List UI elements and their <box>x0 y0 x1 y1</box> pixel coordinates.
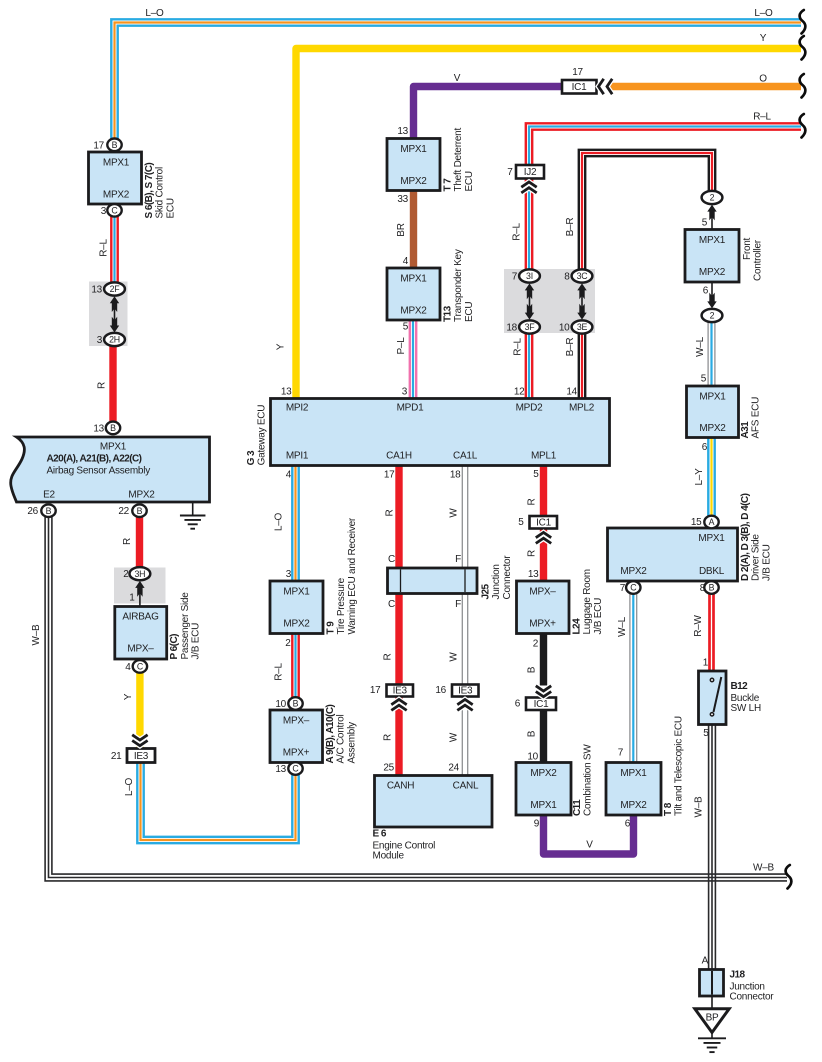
svg-text:B: B <box>709 583 715 593</box>
svg-text:Airbag Sensor Assembly: Airbag Sensor Assembly <box>47 466 151 477</box>
wire R (airbag sensor MPX2 to connector 3H) <box>136 516 143 569</box>
svg-text:IC1: IC1 <box>534 699 550 710</box>
svg-text:13: 13 <box>275 764 286 775</box>
break symbol Y right edge <box>800 36 806 60</box>
svg-text:C: C <box>388 554 395 565</box>
svg-text:Y: Y <box>123 693 134 700</box>
junction connector J25 <box>388 554 513 610</box>
svg-text:C: C <box>292 764 299 774</box>
label R CA1H mid <box>383 653 394 660</box>
label BR <box>396 223 407 236</box>
connector IJ2 pin 7 <box>507 165 544 179</box>
arrow below 3H <box>129 581 144 606</box>
svg-text:IC1: IC1 <box>572 82 588 93</box>
svg-text:13: 13 <box>281 387 292 398</box>
svg-text:MPX1: MPX1 <box>400 274 427 285</box>
label B IC1-C11 <box>527 730 538 737</box>
wire W-B (buckle SW to J18 junction connector) <box>709 724 716 971</box>
label R-L 3F <box>513 338 524 356</box>
svg-text:C: C <box>137 662 144 672</box>
svg-text:MPX+: MPX+ <box>283 748 310 759</box>
ECU box P6 passenger side J/B <box>115 592 202 673</box>
svg-text:C: C <box>388 599 395 610</box>
svg-text:18: 18 <box>450 470 461 481</box>
svg-text:MPX2: MPX2 <box>283 619 310 630</box>
svg-text:MPX–: MPX– <box>529 587 556 598</box>
pin B airbag sensor MPX2 <box>132 504 146 517</box>
svg-text:1: 1 <box>703 658 709 669</box>
pin A driver side MPX1 <box>704 516 718 529</box>
arrows between 3C and 3E <box>577 283 586 319</box>
ECU box A9/A10 A/C control assembly <box>270 699 357 775</box>
wire R (gateway CA1H to J25) <box>395 465 402 570</box>
svg-text:9: 9 <box>534 819 540 830</box>
svg-text:5: 5 <box>701 374 707 385</box>
wire R (connector 2H to airbag sensor MPX1) <box>109 345 116 423</box>
connector block 2F/2H shading <box>89 282 128 347</box>
svg-text:Y: Y <box>276 343 287 350</box>
svg-text:17: 17 <box>384 470 395 481</box>
svg-text:DBKL: DBKL <box>699 566 725 577</box>
wire R (IE3 to ECM CANH) <box>395 697 402 778</box>
ECU box A20/A21/A22 airbag sensor assembly <box>11 424 210 518</box>
svg-text:MPL1: MPL1 <box>531 451 557 462</box>
svg-text:V: V <box>586 840 593 851</box>
arrow into top oval 2 <box>707 205 716 229</box>
wire L-O (IE3 to A/C control MPX+) <box>137 763 298 843</box>
svg-text:R: R <box>527 550 538 557</box>
svg-text:W–L: W–L <box>617 616 628 637</box>
svg-text:2: 2 <box>533 639 539 650</box>
svg-text:B: B <box>137 506 143 516</box>
chevron below IC1 pin5 <box>536 533 551 544</box>
svg-text:Module: Module <box>373 851 405 862</box>
svg-text:R–L: R–L <box>274 663 285 681</box>
svg-text:13: 13 <box>93 424 104 435</box>
svg-text:C11: C11 <box>572 799 583 816</box>
ECU box T13 transponder key <box>387 249 475 332</box>
svg-text:16: 16 <box>435 685 446 696</box>
svg-text:A: A <box>709 517 715 527</box>
svg-text:T 9: T 9 <box>326 621 337 635</box>
pin B A/C control MPX- <box>288 697 302 710</box>
svg-text:Warning ECU and Receiver: Warning ECU and Receiver <box>347 517 358 634</box>
wire R-L (IJ2 to connector 3I) <box>526 179 532 272</box>
label R IC1-L24 <box>527 550 538 557</box>
wire R-L (skid control MPX2 to connector 2F) <box>111 214 117 284</box>
svg-text:CA1H: CA1H <box>386 451 412 462</box>
svg-text:T 8: T 8 <box>663 802 674 816</box>
svg-text:6: 6 <box>515 699 521 710</box>
svg-text:MPX2: MPX2 <box>699 423 726 434</box>
junction connector J18 <box>700 956 775 1003</box>
svg-text:Connector: Connector <box>502 555 513 600</box>
connector IE3 pin 17 <box>370 685 413 697</box>
svg-text:J18: J18 <box>730 970 746 981</box>
svg-text:Tire Pressure: Tire Pressure <box>336 577 347 634</box>
break symbol R-L right edge <box>800 114 806 138</box>
wire W (IE3 to ECM CANL) <box>462 697 467 778</box>
svg-text:MPX1: MPX1 <box>698 533 725 544</box>
svg-text:MPX1: MPX1 <box>100 442 127 453</box>
svg-text:MPX2: MPX2 <box>699 267 726 278</box>
connector oval 2H <box>97 333 125 346</box>
chevron below IE3 pin16 <box>457 700 472 711</box>
connector oval 3E <box>559 320 593 333</box>
wire R-L (tire pressure MPX2 to A/C control MPX-) <box>292 633 298 698</box>
svg-text:17: 17 <box>572 67 583 78</box>
label B-R 3C <box>565 218 576 237</box>
svg-text:3: 3 <box>101 206 107 217</box>
svg-text:F: F <box>455 599 461 610</box>
label R CA1H upper <box>385 509 396 516</box>
label R-L IJ2 <box>512 223 523 241</box>
svg-text:F: F <box>455 554 461 565</box>
svg-text:Front: Front <box>742 237 753 260</box>
label R-L skid <box>99 239 110 257</box>
svg-text:Y: Y <box>760 33 767 44</box>
svg-text:1: 1 <box>129 593 135 604</box>
ECU box T8 tilt and telescopic <box>606 716 685 829</box>
svg-text:MPD2: MPD2 <box>516 403 543 414</box>
pin C passenger side J/B MPX- <box>133 660 147 673</box>
label R-L right <box>753 112 771 123</box>
svg-text:2: 2 <box>285 638 291 649</box>
svg-text:3H: 3H <box>134 569 145 579</box>
label R MPL1 <box>527 498 538 505</box>
pin B driver side DBKL <box>704 581 718 594</box>
svg-text:CA1L: CA1L <box>453 451 478 462</box>
svg-text:R–L: R–L <box>512 223 523 241</box>
wire B (luggage room J/B MPX+ to IC1) <box>540 633 547 686</box>
label L-O top right <box>754 8 773 19</box>
svg-text:A20(A), A21(B), A22(C): A20(A), A21(B), A22(C) <box>47 454 142 465</box>
ECU box S6/S7 skid control <box>89 140 177 218</box>
svg-text:ECU: ECU <box>464 302 475 322</box>
ECU box T9 tire pressure warning <box>270 517 358 649</box>
svg-text:10: 10 <box>527 752 538 763</box>
ground symbol bottom <box>698 1033 726 1053</box>
svg-text:L–O: L–O <box>754 8 773 19</box>
label L-O IE3 loop <box>124 777 135 796</box>
svg-text:IE3: IE3 <box>458 686 473 697</box>
arrows between 2F and 2H <box>110 296 119 332</box>
wire R-L (IJ2 to right edge) <box>526 123 801 166</box>
svg-text:O: O <box>759 74 767 85</box>
label L-Y AFS <box>694 468 705 486</box>
svg-text:MPX2: MPX2 <box>530 768 557 779</box>
svg-text:T 7: T 7 <box>443 178 454 192</box>
svg-text:7: 7 <box>512 272 518 283</box>
svg-text:17: 17 <box>93 140 104 151</box>
svg-text:2: 2 <box>710 193 715 203</box>
svg-text:R–L: R–L <box>99 239 110 257</box>
connector IC1 pin 6 <box>515 698 556 711</box>
svg-text:18: 18 <box>506 323 517 334</box>
connector oval 2 front controller bottom <box>702 309 723 322</box>
break symbol W-B right edge <box>786 865 792 889</box>
pin C A/C control MPX+ <box>288 762 302 775</box>
svg-text:MPX–: MPX– <box>127 644 154 655</box>
svg-text:IJ2: IJ2 <box>524 167 537 178</box>
svg-text:G 3: G 3 <box>246 450 257 465</box>
svg-text:R: R <box>122 538 133 545</box>
label P-L <box>396 337 407 355</box>
wire Y (gateway MPI2 to right edge) <box>296 49 801 399</box>
svg-text:T13: T13 <box>443 305 454 322</box>
svg-text:10: 10 <box>275 699 286 710</box>
svg-text:8: 8 <box>564 272 570 283</box>
wire P-L (transponder key MPX2 to gateway MPD1) <box>410 319 416 398</box>
wire B (IC1 to combination SW MPX2) <box>540 710 547 764</box>
svg-text:MPI1: MPI1 <box>286 451 309 462</box>
svg-text:2: 2 <box>710 311 715 321</box>
wire B-R (connector 3C to front controller) <box>579 150 715 272</box>
label B-R 3E <box>565 338 576 357</box>
svg-text:2F: 2F <box>110 284 121 294</box>
svg-text:Combination SW: Combination SW <box>583 744 594 816</box>
svg-text:ECU: ECU <box>165 198 176 218</box>
svg-text:B: B <box>527 666 538 673</box>
svg-text:6: 6 <box>702 442 708 453</box>
svg-text:W–B: W–B <box>753 863 775 874</box>
svg-text:MPX2: MPX2 <box>400 306 427 317</box>
svg-text:Driver Side: Driver Side <box>751 534 762 581</box>
svg-text:E 6: E 6 <box>373 829 387 840</box>
svg-text:W: W <box>449 508 460 518</box>
svg-text:26: 26 <box>27 506 38 517</box>
svg-text:25: 25 <box>383 763 394 774</box>
chevron below IJ2 <box>521 182 536 193</box>
svg-text:MPX2: MPX2 <box>128 490 155 501</box>
connector block 3I/3C/3F/3E shading <box>504 269 595 333</box>
svg-text:E2: E2 <box>43 490 55 501</box>
svg-text:A/C Control: A/C Control <box>336 715 347 764</box>
svg-text:C: C <box>630 583 637 593</box>
svg-text:33: 33 <box>397 194 408 205</box>
node BP body ground point <box>695 996 729 1033</box>
svg-text:7: 7 <box>618 748 624 759</box>
ECU box A31 AFS <box>687 374 762 454</box>
svg-text:B12: B12 <box>731 681 749 692</box>
wire W (J25 to IE3) <box>462 592 467 685</box>
svg-text:ECU: ECU <box>464 171 475 191</box>
connector oval 3C <box>564 269 592 282</box>
svg-text:MPX1: MPX1 <box>400 144 427 155</box>
svg-text:Luggage Room: Luggage Room <box>582 569 593 634</box>
svg-text:B: B <box>527 730 538 737</box>
svg-text:2: 2 <box>123 569 129 580</box>
svg-text:3: 3 <box>286 569 292 580</box>
svg-text:J/B ECU: J/B ECU <box>761 544 772 581</box>
label W-L T8 <box>617 616 628 637</box>
svg-text:5: 5 <box>702 218 708 229</box>
svg-text:W–B: W–B <box>31 624 42 646</box>
label W CA1L mid <box>449 652 460 662</box>
pin B skid control MPX1 <box>107 139 121 152</box>
svg-text:MPX2: MPX2 <box>400 176 427 187</box>
label R airbag-3H <box>122 538 133 545</box>
connector oval 3H <box>123 567 150 580</box>
label W CA1L lower <box>449 732 460 742</box>
svg-text:3E: 3E <box>577 322 588 332</box>
wire B-R (connector 3E to gateway MPL2) <box>579 332 585 398</box>
svg-text:3C: 3C <box>577 271 589 281</box>
svg-text:Junction: Junction <box>491 564 502 599</box>
label L-O gateway MPI1 <box>274 512 285 531</box>
svg-text:L–O: L–O <box>124 777 135 796</box>
wire L-O (gateway MPI1 to tire pressure MPX1) <box>292 465 298 582</box>
svg-text:MPX1: MPX1 <box>620 768 647 779</box>
svg-text:W–L: W–L <box>695 336 706 357</box>
svg-text:R–L: R–L <box>753 112 771 123</box>
svg-text:P 6(C): P 6(C) <box>169 634 180 660</box>
svg-text:L24: L24 <box>572 618 583 635</box>
label W-B buckle <box>694 796 705 818</box>
wire W-L (front controller to AFS ECU MPX1) <box>708 321 715 387</box>
label W CA1L upper <box>449 508 460 518</box>
ECU box E6 engine control module <box>373 763 493 862</box>
pin C skid control MPX2 <box>107 204 121 217</box>
svg-text:4: 4 <box>286 470 292 481</box>
wire W (gateway CA1L to J25) <box>462 465 467 570</box>
svg-text:W–B: W–B <box>694 796 705 818</box>
svg-text:7: 7 <box>620 583 626 594</box>
pin B airbag sensor E2 <box>41 504 55 517</box>
ECU box G3 gateway <box>246 387 610 481</box>
connector oval 3F <box>506 320 540 333</box>
svg-text:L–Y: L–Y <box>694 468 705 486</box>
svg-text:MPL2: MPL2 <box>569 403 595 414</box>
svg-text:MPX2: MPX2 <box>620 566 647 577</box>
wire R-W (driver side DBKL to buckle SW) <box>710 593 714 672</box>
wire O (IC1 to right edge) <box>610 83 801 90</box>
svg-text:W: W <box>449 652 460 662</box>
wire R (J25 to IE3) <box>395 592 402 685</box>
svg-text:IE3: IE3 <box>393 686 408 697</box>
svg-text:MPX1: MPX1 <box>699 235 726 246</box>
svg-text:B: B <box>110 423 116 433</box>
label Y gateway <box>276 343 287 350</box>
svg-text:B: B <box>293 699 299 709</box>
svg-text:J/B ECU: J/B ECU <box>191 623 202 660</box>
svg-text:AFS ECU: AFS ECU <box>751 397 762 439</box>
svg-text:21: 21 <box>111 751 122 762</box>
break symbol L-O right edge <box>800 10 806 34</box>
connector block 3H shading <box>114 568 166 604</box>
connector IE3 pin 21 <box>111 749 155 763</box>
label R-W <box>693 614 704 636</box>
connector oval 2F <box>91 282 125 295</box>
svg-text:BP: BP <box>706 1013 719 1024</box>
arrow into bottom oval 2 <box>707 283 716 308</box>
svg-text:Assembly: Assembly <box>346 722 357 764</box>
svg-text:15: 15 <box>691 517 702 528</box>
connector oval 3I <box>512 269 540 282</box>
svg-text:12: 12 <box>514 387 525 398</box>
wire L-Y (AFS ECU MPX2 to driver side J/B MPX1) <box>708 437 714 517</box>
svg-text:6: 6 <box>703 286 709 297</box>
chevron above IC1 pin6 <box>536 686 551 697</box>
svg-text:Theft Deterrent: Theft Deterrent <box>453 128 464 192</box>
chevron above IE3 pin21 <box>132 735 147 746</box>
label W-L front controller <box>695 336 706 357</box>
svg-text:MPX2: MPX2 <box>103 190 130 201</box>
svg-text:J/B ECU: J/B ECU <box>593 598 604 635</box>
svg-text:4: 4 <box>125 662 131 673</box>
arrows between 3I and 3F <box>525 283 534 319</box>
svg-text:5: 5 <box>403 322 409 333</box>
svg-text:MPX–: MPX– <box>283 716 310 727</box>
ECU box D2/D3/D4 driver side J/B <box>608 493 773 594</box>
svg-text:R: R <box>97 382 108 389</box>
svg-text:13: 13 <box>91 285 102 296</box>
svg-text:A: A <box>702 956 709 967</box>
svg-text:V: V <box>454 73 461 84</box>
ECU box T7 theft deterrent <box>387 126 475 205</box>
connector IC1 pin 17 <box>562 67 597 94</box>
svg-text:W: W <box>449 732 460 742</box>
break symbol O right edge <box>800 74 806 98</box>
svg-text:J25: J25 <box>481 583 492 599</box>
svg-text:B: B <box>46 506 52 516</box>
svg-text:3: 3 <box>402 387 408 398</box>
connector IC1 pin 5 <box>518 516 557 529</box>
label R 2H-airbag <box>97 382 108 389</box>
label Y P6-IE3 <box>123 693 134 700</box>
svg-text:D 2(A), D 3(B), D 4(C): D 2(A), D 3(B), D 4(C) <box>740 493 751 581</box>
svg-text:IC1: IC1 <box>536 518 552 529</box>
wire V (theft deterrent MPX1 to IC1) <box>414 87 564 141</box>
svg-text:R: R <box>527 498 538 505</box>
svg-text:Passenger Side: Passenger Side <box>180 592 191 660</box>
svg-text:MPX+: MPX+ <box>529 619 556 630</box>
ECU box front controller <box>685 218 764 297</box>
svg-text:5: 5 <box>533 469 539 480</box>
svg-text:R–L: R–L <box>513 338 524 356</box>
svg-text:22: 22 <box>118 506 129 517</box>
svg-text:SW LH: SW LH <box>731 703 761 714</box>
label W-B right <box>753 863 775 874</box>
ECU box L24 luggage room J/B <box>517 569 604 650</box>
wire R (gateway MPL1 to IC1) <box>540 465 547 517</box>
svg-text:C: C <box>111 206 118 216</box>
svg-text:L–O: L–O <box>274 512 285 531</box>
svg-text:2H: 2H <box>109 335 120 345</box>
svg-text:MPX1: MPX1 <box>530 800 557 811</box>
svg-text:24: 24 <box>448 763 459 774</box>
svg-text:3I: 3I <box>526 271 533 281</box>
wire L-O (skid control MPX1 to right edge) <box>111 19 801 141</box>
wire BR (theft deterrent MPX2 to transponder key MPX1) <box>410 189 417 269</box>
svg-text:7: 7 <box>507 167 513 178</box>
wire V (combination SW MPX1 to tilt telescopic MPX2) <box>544 814 634 854</box>
svg-text:Gateway ECU: Gateway ECU <box>257 405 268 466</box>
svg-text:13: 13 <box>528 569 539 580</box>
svg-text:AIRBAG: AIRBAG <box>122 612 159 623</box>
svg-text:A 9(B), A10(C): A 9(B), A10(C) <box>325 704 336 763</box>
svg-text:R–W: R–W <box>693 614 704 636</box>
label Y right <box>760 33 767 44</box>
chevron below IE3 pin17 <box>391 700 406 711</box>
svg-text:L–O: L–O <box>145 8 164 19</box>
svg-text:3F: 3F <box>525 322 536 332</box>
svg-text:B: B <box>112 140 118 150</box>
chevron into IC1 <box>599 79 613 94</box>
label V <box>454 73 461 84</box>
svg-text:MPX1: MPX1 <box>699 392 726 403</box>
svg-text:13: 13 <box>397 126 408 137</box>
